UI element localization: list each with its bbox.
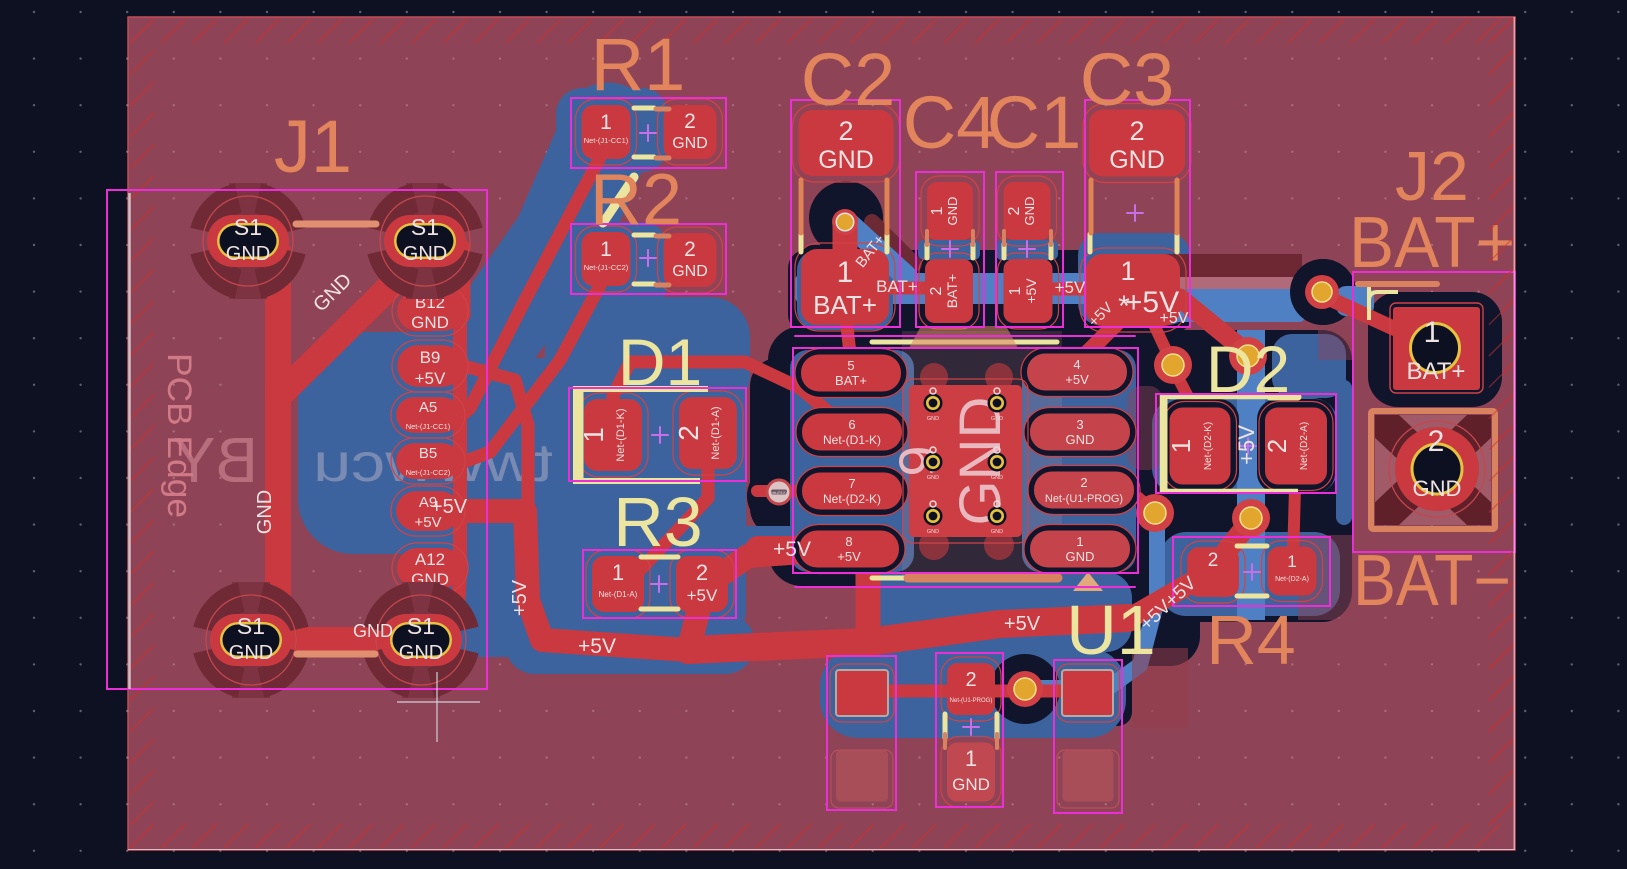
svg-text:GND: GND: [254, 490, 276, 534]
svg-text:1: 1: [837, 256, 854, 289]
svg-text:GND: GND: [399, 642, 443, 664]
svg-text:GND: GND: [672, 263, 708, 280]
svg-text:GND: GND: [1109, 146, 1165, 174]
svg-text:B9: B9: [420, 348, 441, 367]
svg-text:1: 1: [1120, 256, 1135, 286]
svg-text:1: 1: [1424, 316, 1441, 349]
svg-text:C3: C3: [1080, 38, 1175, 121]
svg-text:+5V: +5V: [431, 496, 468, 518]
svg-text:2: 2: [965, 669, 976, 691]
svg-text:GND: GND: [991, 416, 1003, 422]
svg-text:Net-(J1-CC1): Net-(J1-CC1): [406, 422, 451, 431]
svg-text:+5V: +5V: [509, 579, 531, 616]
svg-text:1: 1: [1166, 439, 1196, 453]
svg-text:6: 6: [848, 417, 855, 432]
svg-text:A5: A5: [419, 399, 437, 416]
svg-text:1: 1: [1287, 552, 1296, 571]
svg-text:Net-(R3-K): Net-(R3-K): [771, 491, 786, 495]
svg-text:GND: GND: [927, 416, 939, 422]
svg-text:BAT+: BAT+: [1407, 358, 1466, 385]
svg-text:Net-(D2-K): Net-(D2-K): [823, 492, 881, 506]
svg-text:2: 2: [1208, 550, 1219, 571]
svg-text:+5V: +5V: [1160, 310, 1189, 327]
svg-text:S1: S1: [234, 214, 262, 240]
svg-text:GND: GND: [927, 475, 939, 481]
svg-text:8: 8: [845, 534, 852, 549]
svg-text:+5V: +5V: [415, 369, 446, 388]
svg-text:C2: C2: [801, 38, 896, 121]
svg-text:B5: B5: [419, 445, 437, 462]
svg-text:Net-(D2-K): Net-(D2-K): [1203, 422, 1214, 470]
svg-text:1: 1: [600, 111, 612, 134]
svg-text:GND: GND: [991, 529, 1003, 535]
svg-text:Net-(D2-A): Net-(D2-A): [1275, 576, 1309, 583]
svg-text:3: 3: [1076, 417, 1083, 432]
svg-text:PCB Edge: PCB Edge: [160, 353, 198, 518]
svg-text:A12: A12: [415, 550, 445, 569]
svg-text:*: *: [1118, 290, 1130, 323]
svg-text:S1: S1: [237, 613, 265, 639]
svg-text:+5V: +5V: [773, 538, 811, 561]
svg-text:BAT−: BAT−: [1353, 541, 1511, 621]
svg-text:C4: C4: [903, 81, 998, 164]
svg-text:GND: GND: [411, 313, 449, 332]
svg-text:+5V: +5V: [1055, 278, 1086, 297]
svg-text:Net-(D1-A): Net-(D1-A): [599, 590, 638, 599]
svg-text:+5V: +5V: [837, 549, 861, 564]
svg-text:1: 1: [1007, 286, 1024, 295]
svg-text:BAT+: BAT+: [944, 274, 960, 308]
svg-text:2: 2: [1262, 439, 1292, 453]
svg-text:GND: GND: [1066, 549, 1095, 564]
svg-text:+5V: +5V: [1004, 613, 1041, 635]
svg-text:GND: GND: [991, 475, 1003, 481]
svg-text:+5V: +5V: [687, 586, 718, 605]
svg-text:+5V: +5V: [1234, 425, 1259, 465]
svg-text:Net-(U1-PROG): Net-(U1-PROG): [950, 698, 993, 704]
svg-text:GND: GND: [818, 146, 874, 174]
svg-text:4: 4: [1073, 357, 1080, 372]
svg-text:1: 1: [1076, 534, 1083, 549]
svg-text:BAT+: BAT+: [835, 373, 867, 388]
svg-text:Net-(J1-CC2): Net-(J1-CC2): [406, 468, 451, 477]
svg-text:GND: GND: [1066, 432, 1095, 447]
svg-text:J1: J1: [274, 105, 352, 188]
svg-text:Net-(U1-PROG): Net-(U1-PROG): [1045, 493, 1123, 505]
svg-text:S1: S1: [411, 214, 439, 240]
svg-text:R4: R4: [1206, 601, 1295, 679]
svg-text:BAT+: BAT+: [813, 290, 877, 320]
svg-text:2: 2: [1080, 475, 1087, 490]
svg-text:1: 1: [929, 206, 946, 215]
svg-text:1: 1: [965, 746, 977, 771]
svg-text:Net-(D1-A): Net-(D1-A): [710, 406, 722, 459]
svg-text:2: 2: [696, 560, 708, 585]
svg-text:2: 2: [1428, 425, 1445, 458]
svg-text:R3: R3: [613, 483, 702, 561]
svg-text:+5V: +5V: [1065, 372, 1089, 387]
svg-text:GND: GND: [1022, 197, 1037, 226]
svg-text:Net-(J1-CC2): Net-(J1-CC2): [584, 263, 629, 272]
svg-text:GND: GND: [672, 135, 708, 152]
svg-text:R2: R2: [590, 160, 682, 240]
svg-text:BAT+: BAT+: [876, 277, 918, 296]
svg-text:1: 1: [612, 560, 624, 585]
svg-text:GND: GND: [1413, 476, 1462, 501]
svg-text:2: 2: [673, 425, 704, 441]
svg-text:2: 2: [684, 110, 696, 133]
svg-text:Net-(D2-A): Net-(D2-A): [1299, 422, 1310, 470]
svg-text:7: 7: [848, 476, 855, 491]
svg-text:Net-(J1-CC1): Net-(J1-CC1): [584, 136, 629, 145]
svg-text:D1: D1: [618, 325, 702, 399]
svg-text:2: 2: [928, 286, 945, 295]
svg-text:C1: C1: [987, 81, 1082, 164]
svg-text:GND: GND: [403, 243, 447, 265]
svg-text:GND: GND: [353, 621, 393, 641]
svg-text:2: 2: [684, 238, 696, 261]
svg-text:GND: GND: [226, 243, 270, 265]
svg-text:BAT+: BAT+: [1349, 203, 1515, 283]
svg-text:GND: GND: [952, 775, 990, 794]
svg-text:+5V: +5V: [1023, 278, 1039, 304]
svg-text:+5V: +5V: [578, 635, 616, 658]
svg-text:Net-(D1-K): Net-(D1-K): [823, 433, 881, 447]
svg-text:2: 2: [1006, 206, 1023, 215]
svg-text:GND: GND: [229, 642, 273, 664]
svg-text:1: 1: [600, 238, 612, 261]
svg-text:5: 5: [847, 358, 854, 373]
svg-text:GND: GND: [945, 197, 960, 226]
svg-text:GND: GND: [927, 529, 939, 535]
svg-text:D2: D2: [1206, 332, 1290, 406]
svg-text:R1: R1: [591, 23, 686, 106]
svg-text:S1: S1: [407, 613, 435, 639]
svg-text:U1: U1: [1066, 591, 1155, 669]
svg-text:Net-(D1-K): Net-(D1-K): [615, 408, 627, 461]
